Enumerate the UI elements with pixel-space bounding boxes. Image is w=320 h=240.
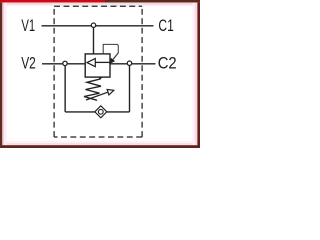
svg-text:V1: V1 <box>21 16 35 35</box>
svg-text:C1: C1 <box>158 16 173 35</box>
svg-text:V2: V2 <box>21 54 36 73</box>
svg-text:C2: C2 <box>158 54 177 73</box>
